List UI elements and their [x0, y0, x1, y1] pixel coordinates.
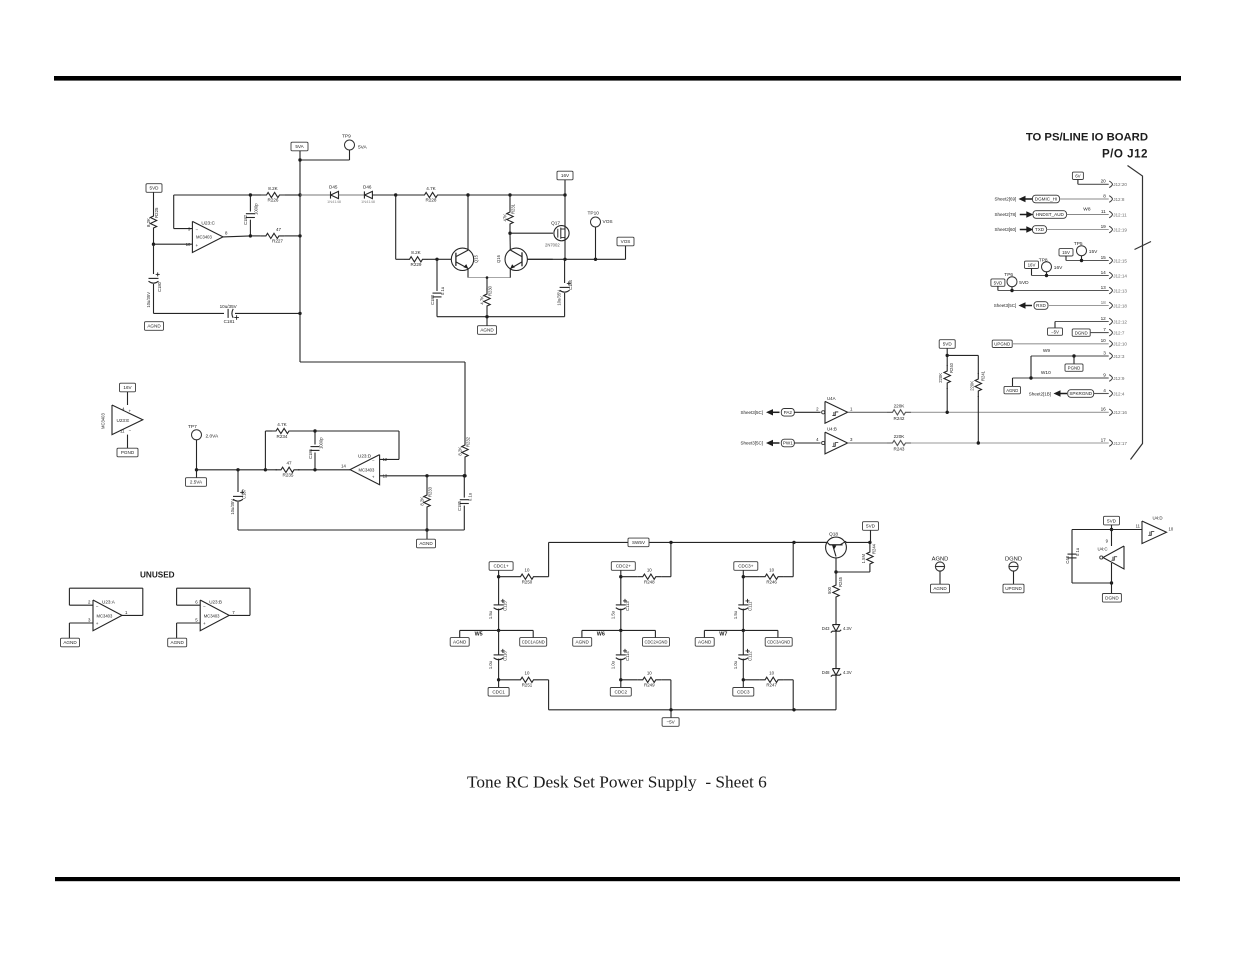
svg-text:C182: C182 [243, 214, 248, 225]
svg-text:U23:E: U23:E [117, 418, 130, 423]
svg-text:J12:3: J12:3 [1113, 354, 1125, 359]
svg-text:10u/35V: 10u/35V [557, 290, 562, 306]
svg-text:C183: C183 [430, 294, 435, 305]
svg-text:R241: R241 [980, 370, 985, 381]
svg-text:SPKRGND: SPKRGND [1069, 391, 1092, 396]
svg-text:R226: R226 [268, 198, 279, 203]
svg-text:4: 4 [1103, 388, 1106, 393]
svg-text:W6: W6 [597, 631, 605, 637]
svg-text:AGND: AGND [480, 328, 494, 333]
svg-text:MC3403: MC3403 [97, 614, 113, 619]
svg-text:HNDST_AUD: HNDST_AUD [1036, 212, 1065, 217]
svg-text:CDC2: CDC2 [615, 690, 628, 695]
svg-text:−: − [96, 604, 99, 609]
svg-text:CDC1+: CDC1+ [493, 564, 509, 569]
svg-text:5VD: 5VD [1019, 280, 1029, 286]
svg-text:−5V: −5V [1051, 329, 1059, 334]
svg-text:C113: C113 [625, 601, 630, 611]
svg-text:W9: W9 [1043, 348, 1051, 354]
svg-text:10: 10 [769, 671, 774, 676]
svg-text:Sheet3[5C]: Sheet3[5C] [740, 441, 763, 446]
svg-text:18: 18 [1101, 300, 1107, 305]
svg-text:CDC1AGND: CDC1AGND [522, 640, 545, 645]
svg-text:10: 10 [525, 671, 530, 676]
svg-text:CDC3+: CDC3+ [738, 564, 754, 569]
svg-text:J12:18: J12:18 [1113, 303, 1127, 308]
svg-text:Sheet3[5C]: Sheet3[5C] [740, 410, 763, 415]
svg-text:D43: D43 [822, 626, 830, 631]
svg-text:J12:12: J12:12 [1113, 319, 1127, 324]
svg-text:MC3403: MC3403 [204, 614, 220, 619]
svg-text:12: 12 [1101, 316, 1107, 321]
svg-text:R225: R225 [154, 207, 159, 218]
svg-text:AGND: AGND [171, 640, 185, 645]
svg-text:J12:20: J12:20 [1113, 182, 1127, 187]
svg-text:16V: 16V [561, 173, 570, 178]
svg-text:J12:9: J12:9 [1113, 376, 1125, 381]
svg-text:16V: 16V [1028, 263, 1036, 268]
svg-text:11: 11 [120, 429, 125, 434]
svg-text:RXD: RXD [1036, 303, 1046, 308]
svg-text:Q17: Q17 [551, 221, 560, 227]
svg-text:1N4148: 1N4148 [327, 199, 342, 204]
svg-text:UNUSED: UNUSED [140, 571, 175, 580]
svg-text:20: 20 [1101, 179, 1107, 184]
svg-text:−5V: −5V [666, 720, 675, 725]
svg-text:W7: W7 [719, 631, 727, 637]
svg-text:0.1u: 0.1u [1075, 547, 1080, 556]
svg-text:C115: C115 [503, 601, 508, 611]
svg-text:4.7K: 4.7K [426, 186, 436, 191]
svg-text:J12:14: J12:14 [1113, 273, 1127, 278]
svg-text:8: 8 [1103, 193, 1106, 198]
svg-text:C185: C185 [457, 500, 462, 511]
svg-text:R244: R244 [872, 543, 877, 554]
svg-text:D48: D48 [822, 670, 830, 675]
svg-text:U23:A: U23:A [102, 600, 116, 605]
svg-text:Tone RC Desk Set Power Supply: Tone RC Desk Set Power Supply - Sheet 6 [467, 773, 767, 792]
svg-text:5VD: 5VD [150, 186, 160, 191]
svg-text:17: 17 [1101, 437, 1107, 442]
svg-text:−: − [129, 428, 132, 433]
svg-text:R230: R230 [488, 285, 493, 296]
svg-text:10: 10 [647, 568, 652, 573]
svg-text:Sheet2[78]: Sheet2[78] [995, 212, 1017, 217]
svg-text:SW5V: SW5V [632, 540, 646, 545]
svg-text:7: 7 [1103, 327, 1106, 332]
svg-text:AGND: AGND [1006, 388, 1018, 393]
svg-text:Sheet3[60]: Sheet3[60] [995, 227, 1017, 232]
svg-text:14: 14 [1101, 270, 1107, 275]
svg-text:C180: C180 [157, 281, 162, 292]
svg-text:UPGND: UPGND [994, 342, 1010, 347]
svg-text:TP9: TP9 [342, 134, 351, 140]
svg-text:5VD: 5VD [1107, 518, 1117, 523]
svg-text:CDC2AGND: CDC2AGND [645, 640, 668, 645]
svg-text:11: 11 [1136, 524, 1141, 529]
svg-text:47: 47 [286, 461, 292, 466]
svg-text:12: 12 [383, 457, 388, 462]
svg-text:CDC3AGND: CDC3AGND [767, 640, 790, 645]
svg-text:10: 10 [1101, 338, 1107, 343]
svg-text:4.3V: 4.3V [843, 626, 852, 631]
svg-text:U4:B: U4:B [827, 427, 837, 432]
svg-text:C181: C181 [224, 319, 235, 324]
svg-text:8.2K: 8.2K [268, 186, 278, 191]
svg-text:+: + [372, 474, 375, 479]
svg-text:220K: 220K [938, 373, 943, 383]
svg-text:5VD: 5VD [866, 524, 876, 529]
svg-text:6V: 6V [1075, 174, 1080, 179]
svg-text:DGMIC_HI: DGMIC_HI [1035, 197, 1057, 202]
svg-text:5VA: 5VA [295, 144, 304, 149]
svg-text:1.0u: 1.0u [610, 660, 615, 669]
svg-text:10: 10 [525, 568, 530, 573]
svg-text:U4:C: U4:C [1098, 547, 1108, 552]
svg-text:R240: R240 [949, 362, 954, 373]
svg-text:PW1: PW1 [783, 441, 793, 446]
svg-text:W10: W10 [1041, 370, 1051, 376]
svg-text:J12:13: J12:13 [1113, 288, 1127, 293]
svg-text:+: + [203, 621, 206, 626]
svg-text:AGND: AGND [419, 541, 433, 546]
svg-text:AGND: AGND [147, 324, 161, 329]
svg-text:15: 15 [1101, 255, 1107, 260]
svg-text:PGND: PGND [121, 450, 135, 455]
svg-text:220K: 220K [969, 381, 974, 391]
svg-text:PGND: PGND [1068, 365, 1081, 370]
svg-text:13: 13 [1101, 285, 1107, 290]
svg-text:C114: C114 [625, 651, 630, 661]
svg-text:J12:11: J12:11 [1113, 212, 1127, 217]
svg-text:J12:17: J12:17 [1113, 441, 1127, 446]
svg-text:1000p: 1000p [319, 437, 324, 449]
svg-text:4.7K: 4.7K [480, 296, 485, 305]
svg-text:−: − [203, 604, 206, 609]
svg-text:J12:19: J12:19 [1113, 227, 1127, 232]
svg-text:2.5VA: 2.5VA [190, 480, 203, 485]
svg-text:C186: C186 [308, 448, 313, 459]
svg-text:−: − [196, 227, 199, 232]
svg-text:R250: R250 [522, 580, 533, 585]
svg-text:1.0u: 1.0u [733, 660, 738, 669]
svg-text:4.7K: 4.7K [277, 422, 287, 427]
svg-text:16V: 16V [123, 385, 132, 390]
svg-text:DGND: DGND [1105, 596, 1119, 601]
svg-text:10u/35V: 10u/35V [146, 292, 151, 308]
svg-text:1000p: 1000p [254, 203, 259, 215]
svg-text:PA2: PA2 [784, 410, 793, 415]
svg-text:J12:16: J12:16 [1113, 410, 1127, 415]
svg-text:R242: R242 [894, 416, 905, 421]
svg-text:TP5: TP5 [1074, 241, 1083, 247]
svg-text:MC3403: MC3403 [101, 413, 106, 429]
svg-text:P/O J12: P/O J12 [1102, 148, 1148, 161]
svg-text:+: + [96, 621, 99, 626]
svg-text:10u/35V: 10u/35V [230, 499, 235, 515]
svg-text:AGND: AGND [63, 640, 77, 645]
svg-text:J12:8: J12:8 [1113, 197, 1125, 202]
svg-text:U23:C: U23:C [201, 220, 215, 226]
svg-text:J12:7: J12:7 [1113, 330, 1125, 335]
svg-text:R232: R232 [466, 436, 471, 447]
svg-text:0.1u: 0.1u [467, 492, 472, 501]
svg-text:R247: R247 [766, 683, 777, 688]
svg-text:R235: R235 [283, 473, 294, 478]
svg-text:5VD: 5VD [994, 280, 1003, 285]
svg-text:U4:D: U4:D [1153, 516, 1163, 521]
svg-text:10: 10 [769, 568, 774, 573]
svg-text:R233: R233 [428, 486, 433, 497]
svg-text:9: 9 [1103, 372, 1106, 377]
svg-text:CDC3: CDC3 [737, 690, 750, 695]
svg-text:J12:15: J12:15 [1113, 258, 1127, 263]
svg-text:Q15: Q15 [474, 254, 479, 263]
svg-text:VOS: VOS [621, 239, 631, 244]
svg-text:C116: C116 [503, 651, 508, 661]
svg-text:R229: R229 [411, 262, 422, 267]
svg-text:Q16: Q16 [496, 254, 501, 263]
svg-text:R231: R231 [511, 203, 516, 214]
svg-text:R228: R228 [426, 198, 437, 203]
svg-text:AGND: AGND [698, 640, 712, 645]
svg-text:R245: R245 [838, 576, 843, 587]
svg-text:TXD: TXD [1035, 227, 1045, 232]
svg-text:Sheet3[5C]: Sheet3[5C] [994, 303, 1017, 308]
svg-text:2N7002: 2N7002 [545, 243, 560, 248]
svg-text:19: 19 [1101, 224, 1107, 229]
svg-text:C111: C111 [747, 601, 752, 611]
svg-text:D45: D45 [329, 185, 338, 190]
svg-text:14: 14 [341, 463, 346, 468]
svg-text:W8: W8 [1083, 207, 1091, 213]
svg-text:4.3V: 4.3V [843, 670, 852, 675]
svg-text:47K: 47K [503, 214, 508, 222]
svg-text:R246: R246 [766, 580, 777, 585]
svg-text:AGND: AGND [933, 586, 947, 591]
svg-text:TP8: TP8 [1039, 257, 1048, 263]
svg-text:U23:B: U23:B [209, 600, 222, 605]
svg-text:10u/35V: 10u/35V [220, 304, 238, 309]
svg-text:−: − [372, 458, 375, 463]
svg-text:Sheet2[69]: Sheet2[69] [995, 197, 1017, 202]
svg-text:1.5M: 1.5M [861, 553, 866, 563]
svg-text:R251: R251 [522, 683, 533, 688]
svg-text:J12:4: J12:4 [1113, 391, 1125, 396]
svg-text:500: 500 [827, 586, 832, 594]
svg-text:8.2K: 8.2K [146, 218, 151, 227]
svg-text:220K: 220K [894, 434, 906, 439]
svg-text:D46: D46 [363, 185, 372, 190]
svg-text:W5: W5 [475, 631, 483, 637]
svg-text:8.2K: 8.2K [411, 250, 421, 255]
svg-text:0.1u: 0.1u [440, 286, 445, 295]
svg-text:R249: R249 [644, 683, 655, 688]
svg-text:AGND: AGND [453, 640, 467, 645]
svg-text:TP10: TP10 [588, 211, 600, 217]
svg-text:1.0u: 1.0u [488, 660, 493, 669]
svg-text:TO PS/LINE IO BOARD: TO PS/LINE IO BOARD [1026, 132, 1148, 144]
svg-text:U4A: U4A [827, 396, 836, 401]
svg-text:R248: R248 [644, 580, 655, 585]
svg-text:TP7: TP7 [188, 424, 197, 430]
svg-text:Sheet2[1B]: Sheet2[1B] [1029, 391, 1051, 396]
svg-text:+: + [129, 409, 132, 414]
svg-text:16: 16 [1101, 407, 1107, 412]
svg-text:C48: C48 [1065, 555, 1070, 563]
svg-text:47: 47 [276, 227, 282, 232]
svg-text:15V: 15V [1089, 249, 1098, 255]
svg-text:R234: R234 [277, 434, 288, 439]
svg-text:C184: C184 [568, 279, 573, 290]
svg-text:220K: 220K [894, 403, 906, 408]
svg-text:16V: 16V [1054, 265, 1063, 271]
svg-text:R243: R243 [894, 447, 905, 452]
svg-text:5VD: 5VD [943, 342, 953, 347]
svg-text:CDC1: CDC1 [492, 690, 505, 695]
svg-text:5VA: 5VA [358, 145, 368, 151]
svg-text:R227: R227 [272, 239, 283, 244]
svg-text:VOS: VOS [603, 219, 613, 225]
svg-text:8.2K: 8.2K [458, 447, 463, 456]
svg-text:10: 10 [1169, 527, 1174, 532]
svg-text:DGND: DGND [1075, 330, 1088, 335]
svg-text:8.2K: 8.2K [420, 497, 425, 506]
svg-text:U23:D: U23:D [358, 454, 372, 459]
svg-text:C112: C112 [747, 651, 752, 661]
svg-text:10: 10 [647, 671, 652, 676]
svg-text:CDC2+: CDC2+ [616, 564, 632, 569]
svg-text:1.5u: 1.5u [488, 610, 493, 619]
svg-text:C187: C187 [242, 488, 247, 499]
svg-text:MC3403: MC3403 [196, 235, 212, 240]
svg-text:11: 11 [1101, 209, 1106, 214]
svg-text:UPGND: UPGND [1005, 586, 1022, 591]
svg-text:AGND: AGND [576, 640, 590, 645]
svg-text:+: + [196, 243, 199, 248]
svg-text:Q18: Q18 [829, 532, 838, 538]
svg-text:MC3403: MC3403 [359, 468, 375, 473]
svg-text:1.5u: 1.5u [610, 610, 615, 619]
svg-text:2.0VA: 2.0VA [206, 434, 220, 440]
svg-text:1.5u: 1.5u [733, 610, 738, 619]
svg-text:J12:10: J12:10 [1113, 342, 1127, 347]
svg-text:3: 3 [1103, 350, 1106, 355]
svg-text:15V: 15V [1062, 250, 1070, 255]
svg-text:1N4148: 1N4148 [361, 199, 376, 204]
svg-text:10: 10 [186, 242, 191, 247]
svg-text:TP6: TP6 [1004, 272, 1013, 278]
